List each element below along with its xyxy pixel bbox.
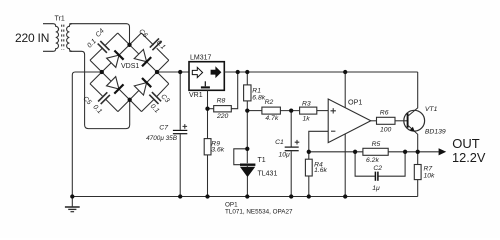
capacitor C2 [355,152,405,192]
diode D4 (bottom to right) [134,78,151,95]
svg-text:C2: C2 [373,165,382,172]
svg-text:R7: R7 [424,165,433,172]
svg-text:4700μ 35B: 4700μ 35B [146,135,178,142]
wire R1 to T1 [246,110,248,163]
resistor R6 [371,110,408,134]
resistor R9 [204,109,225,197]
output arrow [439,148,447,155]
svg-text:0.1: 0.1 [149,103,161,115]
svg-text:R5: R5 [372,141,381,148]
capacitor C3 [142,84,171,115]
main +rail from LM317 output to transistor collector [224,71,417,73]
wire bridge right vertex to LM317 input [157,71,189,73]
svg-text:Tr1: Tr1 [55,15,65,22]
adj pin symbol [201,86,210,88]
svg-text:LM317: LM317 [190,54,212,61]
svg-text:BD139: BD139 [425,128,446,135]
diode D1 (left to top) [107,51,124,68]
capacitor C5 [81,84,117,116]
resistor R7 [414,152,435,197]
svg-text:C5: C5 [81,95,92,106]
ground symbol [65,197,80,212]
capacitor C7 [146,72,187,197]
svg-text:1k: 1k [303,116,311,123]
ground rail [72,196,417,198]
diamond sides [102,45,157,100]
svg-text:10k: 10k [424,172,436,179]
resistor R3 [300,100,329,122]
svg-text:R8: R8 [217,98,226,105]
stubs to capacitor ring [90,33,169,112]
resistor R4 [305,152,327,197]
svg-text:T1: T1 [258,157,266,164]
op-amp OP1 [328,98,371,143]
primary winding [43,24,59,52]
svg-text:10μ: 10μ [279,151,291,158]
svg-text:VDS1: VDS1 [121,63,139,70]
svg-text:VR1: VR1 [189,92,203,99]
svg-text:0.1: 0.1 [91,104,103,116]
core [61,25,63,50]
svg-text:C3: C3 [159,93,170,104]
resistor R2 [247,99,299,122]
voltage regulator VR1 LM317 [189,54,224,99]
wire bridge left vertex to ground rail [72,72,102,197]
svg-text:1.6k: 1.6k [314,167,327,174]
capacitor C4 [86,28,117,61]
wire secondary top to bridge top vertex [69,24,129,45]
svg-text:0.1: 0.1 [86,38,98,50]
svg-text:OP1: OP1 [225,202,238,209]
svg-text:TL431: TL431 [258,170,278,177]
wire op-amp V- pin to ground [344,134,346,197]
bridge rectifier VDS1 [81,28,170,116]
svg-text:C1: C1 [275,139,284,146]
svg-text:R1: R1 [252,87,261,94]
svg-text:220 IN: 220 IN [15,31,49,45]
secondary winding [67,24,72,52]
wire LM317 adj down [207,90,209,108]
svg-text:R6: R6 [380,110,389,117]
svg-text:1μ: 1μ [372,185,380,192]
wire op-amp V+ pin [344,72,346,108]
svg-text:6.2k: 6.2k [366,157,379,164]
wire inverting input [309,131,329,152]
svg-text:100: 100 [380,126,392,133]
resistor R1 [244,72,266,111]
input arrow (outline) [192,67,202,77]
svg-text:R2: R2 [265,99,274,106]
feedback rail [309,151,439,153]
shunt regulator T1 TL431 [234,149,278,197]
svg-text:C4: C4 [95,28,106,39]
svg-text:C7: C7 [159,125,168,132]
capacitor C6 [137,28,168,60]
capacitor C1 [275,111,299,197]
diode D2 (top to right) [134,49,151,66]
transformer Tr1 [43,15,72,51]
resistor R5 [363,141,388,164]
svg-text:VT1: VT1 [425,106,438,113]
svg-text:4.7k: 4.7k [265,115,278,122]
resistor R8 [208,72,238,120]
transistor VT1 [404,72,446,152]
wire secondary bottom to bridge bottom vertex [69,51,129,128]
svg-text:OP1: OP1 [348,98,362,107]
ref loop wire [234,149,248,165]
svg-text:OUT: OUT [452,136,480,151]
svg-text:220: 220 [216,113,229,120]
svg-text:C6: C6 [137,28,148,39]
svg-text:R3: R3 [302,100,311,107]
output arrow (solid) [211,67,221,77]
svg-text:3.6k: 3.6k [211,147,224,154]
diode D3 (left to bottom) [107,77,124,94]
svg-text:TL071, NE5534, OPA27: TL071, NE5534, OPA27 [225,209,293,216]
svg-text:12.2V: 12.2V [452,150,486,165]
